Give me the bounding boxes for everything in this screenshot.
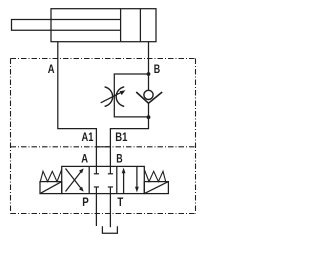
- piston: [120, 9, 122, 42]
- center position blocked ports: [94, 166, 113, 193]
- svg-text:A1: A1: [82, 132, 94, 144]
- solenoid left: [40, 182, 62, 194]
- wire P port: [95, 194, 97, 226]
- svg-text:B1: B1: [115, 132, 128, 144]
- node junction bottom: [147, 115, 151, 119]
- wire check valve to corner: [110, 103, 148, 166]
- throttle arrow: [101, 92, 123, 103]
- valve body U1: [62, 166, 145, 193]
- cylinder body: [51, 9, 156, 42]
- throttle valve: [105, 87, 125, 107]
- svg-text:A: A: [48, 64, 55, 76]
- wire cylinder port A down: [58, 42, 97, 167]
- spring left: [40, 170, 61, 182]
- internal dashed divider: [11, 146, 196, 148]
- left position crossed arrows: [66, 171, 82, 192]
- check valve C1: [144, 90, 153, 99]
- tank: [102, 226, 117, 233]
- wire cylinder port B down: [148, 42, 150, 91]
- dashed enclosure box: [11, 59, 196, 214]
- spring right: [144, 170, 165, 182]
- node junction top: [147, 72, 151, 76]
- svg-text:T: T: [117, 197, 123, 209]
- svg-text:A: A: [81, 153, 88, 165]
- wire T port: [109, 194, 111, 228]
- piston rod: [12, 20, 121, 31]
- svg-text:P: P: [82, 197, 89, 209]
- svg-text:B: B: [154, 64, 160, 76]
- right position arrows: [123, 171, 125, 194]
- solenoid right: [144, 182, 168, 194]
- wire throttle branch: [114, 74, 148, 117]
- svg-text:B: B: [116, 153, 122, 165]
